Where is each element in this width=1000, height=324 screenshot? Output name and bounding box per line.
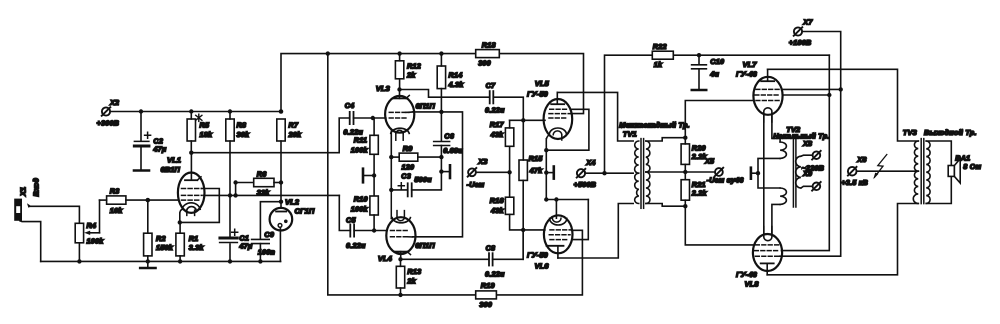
svg-text:47k: 47k bbox=[529, 166, 543, 175]
resistor R6 bbox=[236, 169, 281, 196]
transformer TV3 bbox=[903, 128, 977, 204]
svg-text:ГУ-50: ГУ-50 bbox=[527, 90, 549, 99]
capacitor C8 bbox=[485, 243, 505, 278]
svg-text:0.22u: 0.22u bbox=[346, 241, 366, 250]
wire TV1 secondary center tap to X5 bbox=[646, 171, 715, 173]
svg-text:120: 120 bbox=[402, 162, 415, 171]
chassis bar under R2 bbox=[140, 261, 155, 268]
tube VL3 6П1П bbox=[376, 84, 436, 140]
node dots left section bbox=[77, 109, 283, 263]
wire C7 to VL5 grid node bbox=[493, 97, 523, 120]
svg-text:R19: R19 bbox=[481, 281, 495, 290]
svg-text:Вход: Вход bbox=[32, 177, 41, 196]
wire sleeve to ground bus bbox=[20, 221, 41, 262]
connector X1 bbox=[14, 177, 40, 220]
svg-text:6П1П: 6П1П bbox=[416, 101, 436, 110]
tube VL5 ГУ-50 bbox=[527, 79, 572, 199]
svg-text:150k: 150k bbox=[156, 243, 174, 252]
svg-text:R17: R17 bbox=[490, 120, 505, 129]
svg-text:R22: R22 bbox=[653, 42, 667, 51]
capacitor C9 bbox=[252, 202, 281, 262]
svg-text:100k: 100k bbox=[351, 145, 369, 154]
wire X2 bus +300V bbox=[110, 111, 281, 113]
svg-text:3.3k: 3.3k bbox=[189, 243, 205, 252]
terminal X9 bbox=[801, 164, 824, 191]
node VL6 grid bbox=[521, 228, 525, 232]
wire to VL6 grid bbox=[523, 229, 545, 231]
svg-text:VL6: VL6 bbox=[535, 261, 550, 270]
svg-text:100k: 100k bbox=[351, 205, 369, 214]
wire VL5 grid line bbox=[510, 119, 545, 121]
terminal X4 bbox=[574, 158, 597, 189]
wire input tip to R4 top bbox=[31, 206, 80, 223]
node R2 top junction bbox=[146, 198, 150, 202]
resistor R14 bbox=[437, 51, 464, 112]
svg-text:C4: C4 bbox=[345, 101, 355, 110]
svg-text:4.3k: 4.3k bbox=[448, 80, 465, 89]
svg-text:R6: R6 bbox=[257, 169, 267, 178]
svg-text:TV1: TV1 bbox=[623, 129, 637, 138]
svg-text:R11: R11 bbox=[354, 135, 367, 144]
terminal X8 bbox=[801, 139, 821, 160]
svg-text:0.22u: 0.22u bbox=[485, 105, 505, 114]
wire R4 bottom to ground bus bbox=[78, 243, 80, 262]
svg-text:+3.5 кВ: +3.5 кВ bbox=[841, 178, 868, 187]
resistor R20 bbox=[681, 136, 707, 173]
svg-text:C7: C7 bbox=[486, 81, 496, 90]
wire X4 to TV1 primary tap bbox=[585, 172, 633, 174]
wire R8 bottom to screen node and C1 bbox=[229, 141, 231, 236]
wire R1 leads bbox=[179, 222, 181, 233]
svg-text:VL8: VL8 bbox=[745, 280, 760, 289]
resistor R18 bbox=[476, 40, 500, 67]
svg-text:R18: R18 bbox=[482, 40, 496, 49]
svg-text:VL2: VL2 bbox=[285, 197, 300, 206]
svg-text:2k: 2k bbox=[406, 71, 416, 80]
svg-text:Межкаскадный Тр.: Межкаскадный Тр. bbox=[619, 120, 690, 129]
resistor R2 bbox=[144, 233, 174, 256]
wire VL6 g3 tie bbox=[572, 200, 588, 240]
svg-text:4u: 4u bbox=[709, 69, 719, 78]
svg-text:C8: C8 bbox=[486, 243, 496, 252]
wire R3 left bbox=[100, 199, 107, 201]
svg-text:100k: 100k bbox=[87, 236, 105, 245]
svg-text:47μ: 47μ bbox=[238, 242, 252, 251]
svg-text:1k: 1k bbox=[654, 60, 663, 69]
wire X6 to TV3 primary tap bbox=[857, 170, 919, 172]
resistor R7 bbox=[277, 119, 302, 141]
wire R22 to C10 node and g2 feed bbox=[673, 54, 829, 56]
wire TV1 secondary top to R20 bbox=[646, 138, 685, 141]
plug tip arrow bbox=[27, 203, 32, 208]
svg-text:6П1П: 6П1П bbox=[415, 241, 435, 250]
ground bus bbox=[41, 260, 281, 262]
svg-text:СГ1П: СГ1П bbox=[295, 207, 315, 216]
resistor R4 (potentiometer) bbox=[75, 221, 104, 245]
svg-text:-Uсм: -Uсм bbox=[467, 180, 485, 189]
wire TV3 secondary to speaker bbox=[926, 141, 951, 166]
svg-text:R8: R8 bbox=[237, 121, 247, 130]
capacitor C10 bbox=[692, 55, 725, 90]
wire VL7 right filament leg to TV2 upper winding bbox=[772, 114, 780, 143]
svg-text:20k: 20k bbox=[288, 130, 302, 139]
svg-text:+100В: +100В bbox=[789, 38, 812, 47]
resistor R5 bbox=[187, 112, 213, 153]
wire X7 rail bbox=[780, 32, 841, 257]
wire VL7 grid feed bbox=[685, 101, 754, 138]
svg-text:X7: X7 bbox=[802, 18, 813, 27]
svg-text:X5: X5 bbox=[704, 156, 715, 165]
wire R7 bottom to VL2 anode bbox=[280, 141, 282, 208]
wire +500V riser to R22 bbox=[605, 55, 653, 173]
tube VL4 6П1П bbox=[378, 190, 435, 263]
wire VL1 anode bus to C4 riser bbox=[191, 118, 349, 153]
resistor R10 bbox=[351, 195, 379, 231]
wire top +300V bus bbox=[281, 54, 584, 114]
wire VL7 g2 to C10 rail bbox=[782, 94, 829, 96]
svg-text:Выходной Тр.: Выходной Тр. bbox=[924, 128, 977, 137]
wire VL4 anode to C8 bbox=[401, 258, 489, 260]
svg-text:+500В: +500В bbox=[574, 180, 597, 189]
wire VL5 anode to TV1 primary top bbox=[557, 92, 633, 141]
resistor R9 bbox=[389, 144, 441, 171]
svg-text:C6: C6 bbox=[444, 131, 454, 140]
capacitor C6 bbox=[434, 112, 463, 174]
resistor R13 bbox=[396, 259, 421, 297]
resistor R16 bbox=[490, 172, 523, 230]
svg-text:X3: X3 bbox=[477, 157, 487, 166]
svg-text:ГУ-46: ГУ-46 bbox=[736, 69, 758, 78]
capacitor C7 bbox=[485, 81, 505, 115]
svg-text:R12: R12 bbox=[407, 62, 421, 71]
wire VL1 screen row to net B bbox=[204, 194, 340, 196]
chassis bar at C6/C3 node bbox=[441, 165, 450, 178]
svg-text:-Uсм гу46: -Uсм гу46 bbox=[707, 176, 745, 185]
transformer TV1 bbox=[619, 120, 690, 208]
svg-text:R7: R7 bbox=[289, 121, 299, 130]
capacitor C4 bbox=[343, 101, 363, 136]
wire VL6 cathode top to VL5 cathode line bbox=[546, 199, 588, 201]
svg-text:+300В: +300В bbox=[97, 119, 120, 128]
wire VL3-VL4 cathode line bbox=[390, 132, 392, 190]
wire C4 to VL3 grid bbox=[354, 117, 386, 119]
tube VL2 СГ1П bbox=[270, 197, 315, 261]
wire R2 top lead bbox=[147, 200, 149, 233]
wire R3 right to VL1 grid bbox=[126, 199, 178, 201]
transformer TV2 bbox=[773, 125, 829, 207]
svg-text:R5: R5 bbox=[200, 121, 210, 130]
wire C5 to VL4 grid bbox=[354, 230, 387, 232]
svg-text:X4: X4 bbox=[585, 158, 595, 167]
tube VL1 6В1П bbox=[161, 153, 205, 223]
svg-text:0.68и: 0.68и bbox=[443, 146, 463, 155]
wire g2 rail bbox=[782, 55, 830, 250]
svg-text:R16: R16 bbox=[490, 196, 505, 205]
wire VL7 g3 to X7 rail bbox=[782, 88, 841, 90]
svg-text:500u: 500u bbox=[414, 175, 432, 184]
high voltage arrow bbox=[873, 155, 887, 180]
resistor R12 bbox=[395, 51, 421, 89]
svg-text:R9: R9 bbox=[403, 144, 413, 153]
svg-text:6В1П: 6В1П bbox=[161, 165, 181, 174]
wire net B to C5 bbox=[339, 195, 350, 230]
svg-text:VL7: VL7 bbox=[743, 60, 758, 69]
resistor R17 bbox=[490, 120, 514, 172]
terminal X7 bbox=[789, 18, 814, 48]
svg-text:2k: 2k bbox=[406, 277, 416, 286]
svg-text:0.22u: 0.22u bbox=[485, 269, 505, 278]
resistor R8 bbox=[226, 112, 250, 142]
speaker BA1 bbox=[948, 154, 982, 183]
svg-text:33k: 33k bbox=[257, 188, 270, 197]
wire R2 bottom lead bbox=[147, 256, 149, 262]
svg-text:8 Ом: 8 Ом bbox=[963, 162, 981, 171]
tube VL6 ГУ-50 bbox=[527, 200, 573, 271]
wire VL8 right filament leg to TV2 lower winding bbox=[772, 204, 780, 234]
svg-text:VL4: VL4 bbox=[378, 254, 393, 263]
svg-text:X1: X1 bbox=[19, 187, 28, 197]
resistor R3 bbox=[107, 187, 126, 216]
svg-text:R1: R1 bbox=[189, 234, 199, 243]
svg-text:ГУ-50: ГУ-50 bbox=[527, 250, 549, 259]
svg-text:VL3: VL3 bbox=[376, 84, 391, 93]
svg-text:R15: R15 bbox=[529, 154, 544, 163]
svg-text:C3: C3 bbox=[401, 171, 411, 180]
svg-text:~220В: ~220В bbox=[802, 164, 825, 173]
resistor R1 bbox=[176, 233, 205, 256]
svg-text:18k: 18k bbox=[200, 130, 213, 139]
wire VL6 anode to TV1 primary bottom bbox=[558, 204, 633, 259]
capacitor C2 bbox=[134, 112, 167, 171]
node R8 screen junction bbox=[228, 193, 232, 197]
capacitor C1 bbox=[220, 229, 253, 261]
svg-text:C10: C10 bbox=[710, 57, 724, 66]
resistor R21 bbox=[681, 170, 707, 209]
svg-text:C5: C5 bbox=[346, 215, 356, 224]
svg-text:43k: 43k bbox=[490, 206, 504, 215]
svg-text:300: 300 bbox=[479, 300, 492, 309]
tube VL8 ГУ-46 bbox=[736, 227, 782, 289]
wire VL3 anode jog to C7 bbox=[400, 90, 490, 98]
svg-text:Накальный Тр.: Накальный Тр. bbox=[773, 131, 829, 140]
tube VL7 ГУ-46 bbox=[736, 60, 783, 122]
svg-text:C9: C9 bbox=[264, 230, 274, 239]
terminal X3 bbox=[467, 157, 488, 189]
wire X3 to divider bbox=[476, 171, 510, 173]
chassis bar at VL5 cathode bbox=[544, 167, 554, 179]
svg-text:R14: R14 bbox=[449, 71, 463, 80]
svg-text:300: 300 bbox=[478, 59, 491, 68]
svg-text:X8: X8 bbox=[802, 139, 812, 148]
svg-text:R10: R10 bbox=[354, 195, 368, 204]
svg-text:R2: R2 bbox=[156, 234, 166, 243]
svg-text:2.2k: 2.2k bbox=[691, 189, 708, 198]
svg-text:30k: 30k bbox=[237, 130, 250, 139]
svg-text:R13: R13 bbox=[407, 267, 421, 276]
svg-text:47μ: 47μ bbox=[152, 144, 166, 153]
capacitor C3 bbox=[389, 171, 441, 196]
svg-text:X6: X6 bbox=[856, 155, 867, 164]
svg-text:TV3: TV3 bbox=[903, 128, 918, 137]
wire VL7 left filament leg down to VL8 bbox=[763, 114, 765, 234]
svg-text:ГУ-46: ГУ-46 bbox=[736, 270, 758, 279]
svg-text:VL1: VL1 bbox=[167, 156, 181, 165]
wire VL8 anode to TV3 primary bottom bbox=[767, 204, 918, 275]
resistor R11 bbox=[351, 118, 379, 154]
wire VL8 grid feed bbox=[685, 206, 753, 245]
terminal X2 bbox=[97, 98, 120, 128]
wire TV1 secondary bottom to R21 bbox=[646, 204, 685, 207]
svg-text:VL5: VL5 bbox=[535, 79, 550, 88]
resistor R22 bbox=[652, 42, 673, 69]
wire C8 to VL6 grid node bbox=[493, 230, 524, 259]
resistor R19 bbox=[476, 281, 497, 309]
chassis bar TV2 center bbox=[751, 168, 760, 179]
terminal X6 bbox=[841, 155, 868, 187]
wire VL7 anode to TV3 primary top bbox=[768, 69, 919, 141]
resistor R15 bbox=[519, 120, 543, 259]
node riser top bbox=[326, 51, 330, 55]
svg-text:43k: 43k bbox=[490, 130, 504, 139]
wire VL3 g2 to R14 node and VL4 g2 bbox=[413, 112, 463, 237]
capacitor C5 bbox=[346, 215, 366, 250]
svg-text:R3: R3 bbox=[110, 187, 120, 196]
wire VL5 g3 tie to cathode bbox=[546, 109, 589, 150]
svg-text:R4: R4 bbox=[87, 221, 97, 230]
wire TV2 filament windings to chassis rail bbox=[758, 158, 780, 188]
chassis bar between R11 and R10 bbox=[363, 154, 376, 196]
terminal X5 bbox=[704, 156, 744, 184]
node R6 jog junctions bbox=[233, 180, 237, 197]
wire B+ riser to bottom bus bbox=[328, 54, 583, 295]
svg-text:10k: 10k bbox=[110, 206, 123, 215]
wire VL1 g3 loop to cathode bbox=[180, 189, 220, 223]
R4 wiper arrow and wire to R3 riser bbox=[84, 200, 99, 235]
svg-text:X2: X2 bbox=[109, 98, 119, 107]
